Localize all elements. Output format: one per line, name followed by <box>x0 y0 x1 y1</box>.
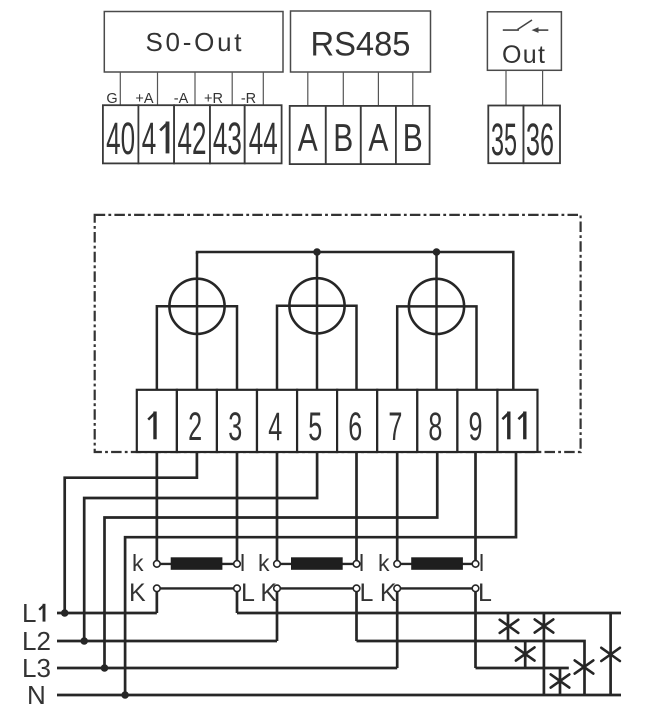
svg-text:42: 42 <box>178 113 207 164</box>
wire T7 to k3 <box>396 451 399 561</box>
link L3-N <box>559 668 562 695</box>
switch symbol <box>503 20 549 30</box>
L2ct drop to load <box>355 591 358 641</box>
terminal numbers 40-44 <box>106 113 278 164</box>
svg-text:k: k <box>258 550 270 576</box>
CT1 l terminal node <box>234 561 241 568</box>
link L1-N right <box>609 613 612 695</box>
CT3 l terminal node <box>472 561 479 568</box>
svg-text:A: A <box>298 117 318 160</box>
S0-Out module box <box>104 12 283 73</box>
svg-text:2: 2 <box>188 405 202 449</box>
measuring element circle 2 <box>289 278 344 333</box>
star marker 1 <box>500 620 519 633</box>
wire T9 to l3 <box>474 451 477 561</box>
svg-text:4: 4 <box>142 113 157 164</box>
L2 load side line <box>357 641 585 695</box>
svg-text:40: 40 <box>106 113 135 164</box>
CT2 secondary wire k-l <box>277 563 357 565</box>
L2 phase line source side <box>57 640 277 643</box>
svg-text:k: k <box>132 550 144 576</box>
svg-text:l: l <box>240 550 245 576</box>
digit 1 of terminal 1 <box>153 412 156 440</box>
svg-text:8: 8 <box>428 405 442 449</box>
CT3 k terminal node <box>394 561 401 568</box>
K2 riser to L2 <box>276 591 279 641</box>
neutral bus wire <box>197 252 513 391</box>
L3ct drop to load <box>474 591 477 668</box>
terminal strip 40-44 <box>103 105 282 163</box>
wire T5 to L2 tap <box>84 451 317 641</box>
L1 load side line <box>237 612 621 615</box>
link L2-L3 <box>524 641 527 668</box>
element 3 wires <box>397 252 476 391</box>
terminals 35 36 <box>488 106 560 164</box>
L3 tap dot <box>101 664 109 672</box>
N tap dot <box>121 691 129 699</box>
K2 node <box>274 585 281 592</box>
K3 riser to L3 <box>396 591 399 668</box>
K3 node <box>394 585 401 592</box>
svg-text:S0-Out: S0-Out <box>146 27 243 57</box>
element 1 wires <box>157 252 237 391</box>
star marker 6 <box>551 674 570 687</box>
svg-text:6: 6 <box>348 405 362 449</box>
svg-text:36: 36 <box>526 114 554 165</box>
svg-text:N: N <box>27 680 46 710</box>
bus junction dot node <box>433 248 441 256</box>
CT2 l terminal node <box>353 561 360 568</box>
measuring element circle 1 <box>169 279 224 334</box>
meter dash-dot border <box>95 215 581 452</box>
wire T8 to L3 tap <box>105 451 438 668</box>
svg-text:5: 5 <box>308 405 322 449</box>
CT1 secondary wire k-l <box>157 563 237 565</box>
K1 node <box>154 585 161 592</box>
RS485 terminal letters A B A B <box>298 117 423 160</box>
terminal strip 1-11 <box>137 390 538 452</box>
L1ct node <box>234 585 241 592</box>
CT1 primary bar <box>171 557 223 570</box>
K3-L3 primary line wire <box>397 587 475 589</box>
svg-text:L: L <box>478 579 492 607</box>
S0-Out terminal stubs <box>120 72 263 105</box>
Out module box <box>487 12 561 71</box>
digit 1 of terminal 41 <box>160 122 168 154</box>
svg-text:43: 43 <box>213 113 242 164</box>
terminal numbers 35 36 <box>491 114 554 165</box>
svg-text:9: 9 <box>469 405 483 449</box>
star marker 2 <box>535 619 554 632</box>
L3 phase line source side <box>57 667 397 670</box>
svg-text:L2: L2 <box>22 626 51 656</box>
L1 phase line source side <box>57 612 157 615</box>
CT3 secondary wire k-l <box>397 563 475 565</box>
K1-L1 primary line wire <box>157 587 237 589</box>
element 2 wires <box>277 252 357 391</box>
CT2 k terminal node <box>274 561 281 568</box>
svg-text:L3: L3 <box>22 653 51 683</box>
svg-text:Out: Out <box>502 41 545 69</box>
svg-text:L: L <box>22 598 36 628</box>
svg-text:k: k <box>378 550 390 576</box>
link L1-N <box>543 613 546 695</box>
svg-text:B: B <box>403 117 423 160</box>
RS485 terminals A B A B <box>290 106 430 164</box>
RS485 module box <box>291 11 431 72</box>
L3ct node <box>472 585 479 592</box>
star marker 5 <box>575 660 594 673</box>
K2-L2 primary line wire <box>277 587 357 589</box>
L1 tap dot <box>61 609 69 617</box>
CT1 k terminal node <box>154 561 161 568</box>
RS485 terminal stubs <box>308 72 413 106</box>
star marker 4 <box>601 648 620 661</box>
N line <box>57 694 621 697</box>
svg-text:RS485: RS485 <box>311 26 411 64</box>
wire T2 to L1 tap <box>65 451 197 613</box>
CT2 primary bar <box>291 557 343 570</box>
svg-text:A: A <box>368 117 388 160</box>
switch arrow head <box>532 27 539 33</box>
svg-text:35: 35 <box>491 114 517 165</box>
CT3 primary bar <box>411 557 463 570</box>
wire T6 to l2 <box>355 451 358 561</box>
star marker 3 <box>516 647 535 660</box>
svg-text:K: K <box>129 579 146 607</box>
svg-text:B: B <box>333 117 353 160</box>
svg-text:44: 44 <box>249 113 278 164</box>
digit 1 of label L1 <box>39 604 44 622</box>
svg-text:4: 4 <box>268 405 282 449</box>
wire T1 to k1 <box>156 451 159 561</box>
terminal numbers 1-11 <box>148 405 482 449</box>
svg-text:7: 7 <box>388 405 402 449</box>
link L1-L2 <box>507 613 510 641</box>
L2ct node <box>353 585 360 592</box>
bus junction dot node <box>313 248 321 256</box>
wire T11 to N tap <box>125 451 516 695</box>
measuring element circle 3 <box>409 279 464 334</box>
stub labels G +A -A +R -R <box>106 91 256 107</box>
svg-text:l: l <box>479 550 484 576</box>
digits 11 of terminal 11 <box>502 412 525 440</box>
K1 riser to L1 <box>156 591 159 613</box>
svg-text:l: l <box>359 550 364 576</box>
svg-text:3: 3 <box>228 405 242 449</box>
Out terminal stubs <box>506 70 543 105</box>
wire T4 to k2 <box>276 451 279 561</box>
wire T3 to l1 <box>236 451 239 561</box>
L2 tap dot <box>80 637 88 645</box>
L1ct drop to load <box>236 591 239 613</box>
L3 load side line <box>476 667 569 670</box>
